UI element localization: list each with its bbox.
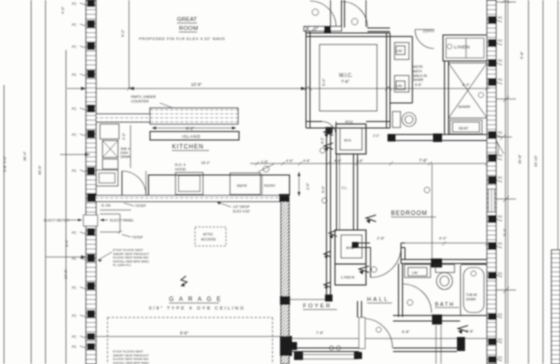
hall north wall (bedroom south, west part)	[358, 243, 488, 248]
right dimension line H	[542, 0, 544, 364]
svg-text:LINEN: LINEN	[454, 45, 470, 50]
note 1/2 DROP ELEV	[233, 205, 250, 213]
svg-text:PC: PC	[498, 176, 503, 180]
svg-text:PC: PC	[498, 39, 503, 43]
C.G. markers	[329, 327, 381, 350]
garage east wall junction posts	[280, 296, 303, 360]
svg-text:9'-2": 9'-2"	[121, 29, 125, 37]
flood vent note (bottom)	[113, 350, 150, 364]
garage overhead door (dashed)	[108, 318, 273, 364]
svg-text:PC: PC	[72, 107, 77, 111]
svg-text:C.L.: C.L.	[342, 186, 348, 190]
kitchen to garage door	[122, 171, 146, 195]
right wall PC tick labels	[496, 20, 502, 361]
right rotated dim texts	[503, 51, 538, 236]
svg-text:GREAT: GREAT	[177, 17, 197, 23]
master bath entry door (top)	[415, 30, 434, 49]
svg-text:PC: PC	[498, 59, 503, 63]
refrigerator	[230, 173, 261, 195]
svg-text:4'-3": 4'-3"	[122, 132, 126, 140]
hall linen closet	[335, 264, 366, 285]
svg-text:30'-8": 30'-8"	[518, 154, 522, 164]
svg-text:PC: PC	[498, 313, 503, 317]
svg-text:LAV: LAV	[397, 49, 404, 53]
svg-text:HALL: HALL	[367, 297, 390, 303]
svg-text:PC: PC	[72, 23, 77, 27]
svg-text:DRWR: DRWR	[121, 155, 132, 159]
svg-text:2'-0": 2'-0"	[306, 182, 310, 190]
svg-text:ROOM: ROOM	[179, 26, 198, 32]
wall junction posts	[87, 127, 359, 302]
svg-text:1L GA: 1L GA	[101, 204, 111, 208]
svg-text:PC: PC	[72, 345, 77, 349]
svg-text:FL 100% P.C.: FL 100% P.C.	[113, 263, 132, 267]
svg-text:PROPOSED FIN FLR ELEV 4.92' NA: PROPOSED FIN FLR ELEV 4.92' NAVD	[139, 36, 225, 41]
svg-text:46'-0": 46'-0"	[38, 165, 42, 175]
room label W.I.C.	[322, 73, 353, 86]
svg-text:PC: PC	[498, 215, 503, 219]
svg-text:LINEN: LINEN	[341, 275, 355, 280]
svg-text:7'-8": 7'-8"	[316, 331, 324, 335]
island dim 8'-2"	[152, 126, 236, 129]
lav 2	[395, 76, 410, 93]
svg-text:TSTEP: TSTEP	[132, 236, 144, 240]
kitchen south counter row	[149, 175, 290, 196]
entry posts	[289, 337, 465, 359]
room label GREAT ROOM	[139, 17, 225, 41]
svg-text:5'-8": 5'-8"	[415, 83, 423, 87]
svg-text:SHWR: SHWR	[466, 297, 476, 301]
bath south wall	[393, 315, 487, 325]
svg-text:WALK-IN: WALK-IN	[413, 74, 428, 78]
W.I.C. shelving inner rect	[320, 45, 378, 112]
svg-text:PC: PC	[72, 286, 77, 290]
W.I.C. door (bottom-left)	[322, 122, 336, 136]
svg-text:PC: PC	[72, 2, 77, 6]
kitchen corner cabinets (west wall)	[96, 124, 119, 186]
left exterior wall (west, hatched)	[86, 0, 96, 364]
svg-text:7'-6": 7'-6"	[341, 79, 350, 84]
svg-text:COUNTER: COUNTER	[131, 100, 149, 104]
right dimension line I	[557, 0, 559, 250]
garage east wall (hatched)	[281, 197, 289, 364]
foyer cased opening markers (zigzag)	[324, 230, 337, 289]
svg-text:PC: PC	[72, 335, 77, 339]
interior wall A (foyer/great room east)	[327, 128, 331, 296]
far bottom-right hatched edge	[552, 250, 560, 364]
svg-text:PC: PC	[72, 169, 77, 173]
left dimension line B	[30, 0, 32, 364]
garage slope arrow (zigzag)	[181, 276, 187, 286]
label MSTR BATH WALK-IN SHWR	[413, 65, 428, 87]
svg-text:5'-0": 5'-0"	[322, 185, 326, 193]
svg-text:PC: PC	[498, 338, 503, 342]
bedroom door	[371, 247, 402, 278]
svg-text:LAV: LAV	[412, 271, 419, 275]
great room reference line	[128, 0, 130, 89]
bath/bedroom separating wall	[388, 134, 488, 143]
hall circled marker	[371, 267, 377, 273]
entry door leaf	[359, 318, 393, 349]
svg-text:TUB W/: TUB W/	[466, 293, 477, 297]
entry wall west segment	[289, 348, 359, 352]
lav 1	[395, 43, 410, 60]
right wall exterior door arc	[496, 140, 504, 158]
top door arc 1 (great room exterior door)	[310, 0, 336, 27]
left dim tie arrows	[46, 87, 90, 259]
svg-text:BATH: BATH	[435, 302, 455, 308]
porch face line	[281, 338, 490, 340]
svg-text:PC: PC	[498, 154, 503, 158]
svg-text:ISLAND: ISLAND	[182, 134, 201, 139]
right exterior wall (east, hatched)	[487, 0, 496, 364]
svg-text:W.H.: W.H.	[344, 139, 352, 143]
svg-text:PC: PC	[498, 16, 503, 20]
svg-text:PC: PC	[72, 257, 77, 261]
svg-text:ELEV 4.54': ELEV 4.54'	[233, 209, 250, 213]
garage door header line	[96, 336, 286, 338]
svg-text:9'-8": 9'-8"	[520, 51, 524, 59]
svg-text:PC: PC	[72, 314, 77, 318]
svg-text:ELECT PANEL: ELECT PANEL	[110, 219, 134, 223]
left dimension line D	[65, 50, 67, 364]
entry wall east segment	[393, 348, 457, 352]
porch steps	[295, 355, 358, 360]
right wall posts	[488, 16, 496, 363]
svg-text:FOYER: FOYER	[303, 304, 332, 310]
walk-in shower	[445, 61, 488, 135]
top door arc 2	[342, 0, 391, 32]
svg-text:R.O. 4: R.O. 4	[175, 163, 185, 167]
range	[176, 173, 204, 195]
bath toilet	[436, 265, 455, 290]
svg-text:3'-0": 3'-0"	[373, 134, 379, 138]
top short hatched wall	[304, 27, 342, 33]
dimension line y=88.5 across plan	[96, 87, 490, 91]
bedroom west wall	[354, 154, 358, 230]
svg-text:GARAGE: GARAGE	[169, 297, 226, 303]
label LINEN	[447, 44, 470, 49]
circled marker 4 (top)	[312, 9, 318, 15]
bedroom interior vertical dim line	[431, 164, 433, 266]
svg-text:SHWR: SHWR	[458, 104, 470, 109]
left dimension line A	[3, 85, 5, 364]
circled marker G/L	[258, 164, 274, 172]
svg-text:16'-2": 16'-2"	[201, 161, 211, 165]
svg-text:4'-6": 4'-6"	[303, 159, 311, 163]
foyer/hall divider stub	[358, 301, 362, 318]
right dimension line G	[528, 0, 530, 364]
svg-text:HOOD: HOOD	[175, 167, 186, 171]
svg-text:SHWR: SHWR	[413, 78, 424, 82]
shower labels	[458, 83, 484, 109]
kitchen island counter	[150, 108, 238, 124]
bath west wall	[399, 264, 403, 318]
svg-text:PC: PC	[498, 78, 503, 82]
svg-text:PC: PC	[498, 272, 503, 276]
svg-text:2'-6": 2'-6"	[356, 159, 364, 163]
svg-text:7'-8": 7'-8"	[419, 158, 428, 163]
W.I.C. room walls	[306, 33, 390, 128]
svg-text:PC: PC	[72, 73, 77, 77]
left wall PC tick labels	[80, 3, 86, 348]
svg-text:SEAT: SEAT	[459, 127, 469, 131]
circled marker 6 (top)	[352, 18, 358, 24]
svg-text:8'-2": 8'-2"	[186, 126, 195, 131]
master bath lav counter	[390, 37, 412, 104]
water heater closet W.H.	[336, 120, 366, 154]
linen closet (top right)	[443, 35, 487, 61]
svg-text:ATTIC: ATTIC	[203, 233, 214, 237]
labels above counter	[175, 159, 311, 171]
svg-text:3'-4": 3'-4"	[462, 83, 470, 87]
bath door	[403, 284, 432, 313]
svg-text:BEDROOM: BEDROOM	[391, 211, 428, 217]
svg-text:PNTRY: PNTRY	[264, 184, 276, 188]
svg-text:10'-9": 10'-9"	[191, 82, 202, 87]
svg-text:4'-0": 4'-0"	[439, 237, 447, 241]
garage north wall (kitchen/garage, hatched)	[95, 196, 285, 202]
svg-text:AHU: AHU	[346, 246, 354, 250]
svg-text:5/8" TYPE X GYB CEILING: 5/8" TYPE X GYB CEILING	[149, 306, 245, 311]
svg-text:PC: PC	[72, 45, 77, 49]
svg-text:34'-10": 34'-10"	[534, 155, 538, 167]
svg-text:KITCHEN: KITCHEN	[172, 145, 204, 151]
dimension line y=163 bedroom	[250, 162, 489, 166]
svg-text:PC: PC	[72, 133, 77, 137]
bath circled marker	[407, 300, 413, 306]
bath vanity	[405, 265, 431, 278]
step lines at kitchen door	[100, 210, 131, 234]
svg-text:PC: PC	[498, 242, 503, 246]
AHU closet	[335, 230, 366, 264]
svg-text:5'-8" 4'-0": 5'-8" 4'-0"	[3, 155, 7, 172]
svg-text:(2)2x12: (2)2x12	[423, 29, 435, 33]
svg-text:24'-0": 24'-0"	[64, 269, 68, 279]
label SNK & DISH DRWR	[121, 147, 132, 159]
svg-text:REFR: REFR	[237, 184, 247, 188]
kitchen right vertical dim 2'-0"	[298, 172, 301, 196]
counter return edge	[130, 125, 132, 168]
label PARTL UNDER COUNTER with leader	[131, 95, 156, 104]
svg-text:1/2" DROP: 1/2" DROP	[233, 205, 250, 209]
svg-text:PARTL UNDER: PARTL UNDER	[131, 95, 156, 99]
closet chase east lines	[337, 154, 340, 230]
svg-text:TSTEP: TSTEP	[135, 204, 147, 208]
svg-text:PC: PC	[498, 131, 503, 135]
svg-text:4'-2": 4'-2"	[321, 136, 325, 144]
svg-text:3'-4": 3'-4"	[65, 239, 69, 247]
meter box on wall	[84, 215, 98, 226]
left rotated dim texts	[3, 6, 125, 279]
porch vertical dim line	[435, 325, 437, 364]
attic access (dashed box)	[195, 227, 226, 246]
svg-text:5'-4": 5'-4"	[503, 228, 507, 236]
svg-text:4'-8": 4'-8"	[334, 159, 342, 163]
svg-text:BATH: BATH	[413, 69, 422, 73]
svg-text:5'-4": 5'-4"	[322, 78, 326, 86]
shower seat	[450, 120, 482, 134]
tub with shower	[461, 265, 488, 316]
svg-text:ACCESS: ACCESS	[201, 238, 216, 242]
kitchen bar counter (under-counter)	[96, 114, 150, 122]
left dimension line C	[45, 0, 47, 364]
hall/bedroom zigzag markers	[359, 215, 376, 275]
svg-text:PC: PC	[498, 356, 503, 360]
svg-text:MSTR: MSTR	[413, 65, 423, 69]
svg-text:LAV: LAV	[397, 84, 404, 88]
foyer north wall stub	[289, 299, 327, 301]
great room east wall	[304, 27, 310, 129]
svg-text:2'-8": 2'-8"	[377, 237, 385, 241]
svg-text:ELECT METER: ELECT METER	[44, 219, 69, 223]
bath north wall	[401, 243, 487, 268]
svg-text:4'-0": 4'-0"	[61, 6, 65, 14]
svg-text:4X12: 4X12	[345, 120, 353, 124]
svg-text:PC: PC	[72, 231, 77, 235]
porch zigzag marker	[458, 326, 468, 335]
right dim tie arrows	[496, 0, 516, 293]
right dimension line E	[505, 0, 507, 364]
svg-text:4'-6": 4'-6"	[286, 159, 294, 163]
flood vent note (left mid)	[113, 248, 150, 267]
svg-text:9'-6": 9'-6"	[180, 331, 189, 336]
svg-text:36'-4": 36'-4"	[23, 151, 27, 161]
island base label	[150, 132, 239, 141]
master toilet	[393, 112, 417, 128]
left wall posts	[87, 0, 95, 350]
svg-text:6'-8": 6'-8"	[402, 330, 410, 334]
